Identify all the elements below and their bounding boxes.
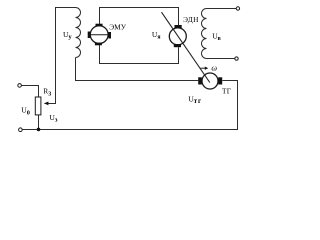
node junction dot at R3 bottom (37, 128, 41, 132)
wire R3 bottom lead (38, 115, 40, 130)
wire TG right brush to bottom bus (21, 81, 238, 130)
EMU right brush (108, 32, 111, 39)
wire EMU armature loop top (100, 8, 179, 26)
wire Uv field winding bottom (207, 58, 235, 60)
terminal Uv top-right (236, 7, 239, 10)
svg-text:ТГ: ТГ (222, 86, 231, 95)
wire top-left terminal to R3 top (21, 86, 38, 98)
motor top brush (175, 25, 182, 28)
EMU top brush (96, 24, 103, 27)
EMU quadrature axis line (88, 34, 111, 36)
svg-text:ЭМУ: ЭМУ (109, 23, 126, 32)
terminal bottom-left (19, 128, 23, 132)
terminal Uv bottom-right (235, 57, 238, 60)
wire Uv field winding top (207, 8, 237, 10)
EMU bottom brush (95, 43, 102, 46)
svg-text:ЭДН: ЭДН (183, 15, 199, 24)
wire Uy coil bottom to TG left brush (76, 58, 199, 81)
terminal top-left (18, 84, 22, 88)
shaft diagonal motor to tachogenerator (162, 12, 210, 82)
amplidyne U1 EMU machine circle (90, 26, 108, 44)
R3 wiper arrow (44, 102, 48, 106)
motor bottom brush (174, 44, 181, 47)
TG right brush (218, 77, 222, 84)
wire R3 wiper to Uy coil top (45, 8, 76, 104)
inductor Uv excitation winding coil (202, 9, 207, 59)
EMU left brush (88, 32, 91, 39)
motor M EDN machine circle (169, 28, 186, 45)
TG left brush (198, 77, 202, 84)
tachogenerator TG machine circle (202, 73, 218, 89)
svg-text:ω: ω (211, 64, 217, 73)
resistor R3 potentiometer body (35, 97, 41, 115)
wire EMU armature loop bottom (100, 45, 179, 63)
inductor Uy control winding coil (76, 8, 81, 58)
omega speed arrow (200, 67, 205, 69)
